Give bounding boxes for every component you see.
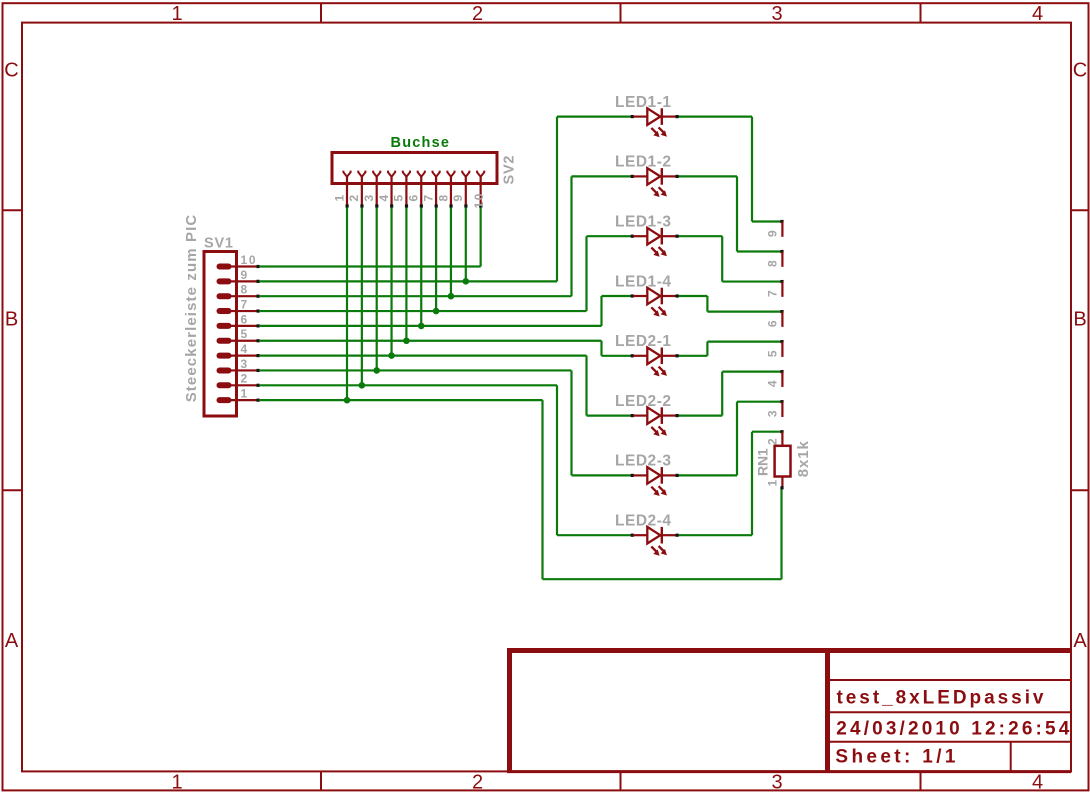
SV1 pin contact 1 <box>220 397 229 403</box>
LED LED2-4 cathode lead <box>662 534 677 536</box>
svg-text:C: C <box>4 60 18 82</box>
RN1 pin 8 stub <box>781 252 783 267</box>
wire LED2-1 left horizontal <box>602 355 632 357</box>
LED LED2-1 anode endpoint dot <box>631 354 634 357</box>
svg-text:3: 3 <box>771 3 782 25</box>
wire net column SV2 pin 7 down to row 7 <box>435 208 437 312</box>
wire LED1-4 vertical to RN1 pin 6 <box>706 296 708 312</box>
LED LED1-3 emission arrow 1 <box>651 248 659 257</box>
SV1 pin endpoint dot 4 <box>257 354 260 357</box>
title block thick top edge <box>507 648 1072 653</box>
wire bottom rail horizontal <box>543 578 782 580</box>
SV2 pin contact fork 7 <box>433 171 440 177</box>
frame column tick bottom 3|4 <box>920 771 922 790</box>
wire RN1 pin 1 vertical <box>780 489 782 580</box>
SV2 pin contact fork 10 <box>477 171 484 177</box>
wire LED2-2 left vertical from row 4 <box>585 356 587 416</box>
SV2 pin endpoint dot 10 <box>479 204 482 207</box>
LED LED1-3 anode endpoint dot <box>631 235 634 238</box>
wire net row SV1 pin 5 <box>259 340 602 342</box>
SV1 pin lead 8 <box>231 295 258 297</box>
LED LED2-4 anode endpoint dot <box>631 534 634 537</box>
svg-text:B: B <box>5 309 18 331</box>
LED LED1-4 triangle <box>647 288 660 305</box>
SV2 pin contact fork 3 <box>373 171 380 177</box>
wire LED1-4 left horizontal <box>602 295 632 297</box>
svg-text:RN1: RN1 <box>755 448 771 476</box>
title block row line 1 <box>830 679 1071 681</box>
LED LED1-2 emission arrow 2 <box>659 187 667 196</box>
LED LED2-1 emission arrow 2 <box>659 367 667 376</box>
RN1 pin 6 stub <box>781 312 783 327</box>
wire row 1 vertical down <box>541 400 543 579</box>
RN1 pin 2 endpoint dot <box>780 430 783 433</box>
SV2 pin endpoint dot 9 <box>464 204 467 207</box>
svg-text:4: 4 <box>241 342 248 356</box>
svg-text:6: 6 <box>766 320 780 327</box>
SV2 pin lead 4 <box>390 177 392 205</box>
SV2 pin contact fork 9 <box>462 171 469 177</box>
svg-text:7: 7 <box>766 290 780 297</box>
RN1 pin 5 endpoint dot <box>780 340 783 343</box>
RN1 pin 9 endpoint dot <box>780 220 783 223</box>
svg-text:24/03/2010 12:26:54: 24/03/2010 12:26:54 <box>836 719 1069 740</box>
wire net row SV1 pin 8 <box>259 295 572 297</box>
title block row line 3 <box>830 741 1071 743</box>
svg-text:10: 10 <box>472 193 486 208</box>
LED LED1-4 emission arrow 1 <box>651 307 659 316</box>
frame row tick left C|B <box>4 209 23 211</box>
SV2 pin endpoint dot 4 <box>390 204 393 207</box>
junction node row 4 / column 4 <box>388 352 395 359</box>
SV1 pin lead 9 <box>231 280 258 282</box>
wire RN1 pin 2 horizontal <box>752 431 781 433</box>
wire LED1-3 vertical to RN1 pin 7 <box>721 236 723 281</box>
SV2 pin lead 2 <box>361 177 363 205</box>
SV2 pin endpoint dot 6 <box>420 204 423 207</box>
SV1 pin endpoint dot 6 <box>257 324 260 327</box>
svg-text:1: 1 <box>241 387 248 401</box>
svg-text:6: 6 <box>241 312 248 326</box>
LED LED1-4 cathode lead <box>662 295 677 297</box>
wire net column SV2 pin 6 down to row 6 <box>420 208 422 326</box>
wire LED1-3 left horizontal <box>587 235 632 237</box>
LED LED1-2 anode endpoint dot <box>631 175 634 178</box>
LED LED2-3 emission arrow 1 <box>651 487 659 496</box>
svg-text:9: 9 <box>241 268 248 282</box>
wire LED1-1 vertical to RN1 pin 9 <box>751 117 753 222</box>
svg-text:9: 9 <box>451 195 465 202</box>
LED LED1-1 cathode bar <box>661 108 663 125</box>
title block sheet cell divider <box>1010 742 1012 772</box>
LED LED1-1 emission arrow 2 <box>659 127 667 136</box>
SV2 pin lead 6 <box>420 177 422 205</box>
frame column tick top 2|3 <box>620 3 622 22</box>
SV2 pin contact fork 5 <box>403 171 410 177</box>
svg-text:8: 8 <box>436 195 450 202</box>
LED LED2-1 emission arrow 1 <box>651 367 659 376</box>
svg-text:B: B <box>1073 309 1086 331</box>
svg-text:1: 1 <box>332 195 346 202</box>
wire net row SV1 pin 1 <box>259 399 543 401</box>
RN1 pin 5 stub <box>781 342 783 357</box>
LED LED1-1 anode lead <box>633 115 647 117</box>
wire RN1 pin 5 horizontal <box>707 341 781 343</box>
SV1 pin endpoint dot 8 <box>257 295 260 298</box>
SV1 pin contact 3 <box>220 367 229 373</box>
LED LED1-4 cathode endpoint dot <box>676 294 679 297</box>
svg-text:SV1: SV1 <box>204 236 233 252</box>
SV2 pin contact fork 8 <box>447 171 454 177</box>
SV2 pin lead 9 <box>465 177 467 205</box>
svg-text:5: 5 <box>766 350 780 357</box>
svg-text:A: A <box>5 630 19 652</box>
SV2 pin contact fork 6 <box>418 171 425 177</box>
resistor RN1 body <box>775 446 791 477</box>
LED LED2-1 cathode endpoint dot <box>676 354 679 357</box>
svg-text:test_8xLEDpassiv: test_8xLEDpassiv <box>837 688 1044 709</box>
SV2 pin contact fork 2 <box>358 171 365 177</box>
svg-text:8: 8 <box>766 260 780 267</box>
LED LED2-3 triangle <box>647 467 660 484</box>
SV1 pin endpoint dot 10 <box>257 265 260 268</box>
LED LED1-4 anode endpoint dot <box>631 294 634 297</box>
SV2 pin contact fork 1 <box>343 171 350 177</box>
wire LED2-4 left vertical from row 2 <box>556 385 558 535</box>
frame row tick right C|B <box>1071 209 1089 211</box>
LED LED2-4 emission arrow 1 <box>651 547 659 556</box>
SV1 pin endpoint dot 2 <box>257 384 260 387</box>
svg-text:5: 5 <box>241 327 248 341</box>
LED LED1-1 triangle <box>647 108 660 125</box>
LED LED2-2 anode lead <box>633 415 647 417</box>
wire LED1-1 right horizontal <box>678 115 752 117</box>
junction node row 7 / column 7 <box>433 308 440 315</box>
svg-text:9: 9 <box>766 230 780 237</box>
wire net row SV1 pin 6 <box>259 325 602 327</box>
junction node row 5 / column 5 <box>403 337 410 344</box>
wire LED1-1 left vertical from row 9 <box>556 117 558 282</box>
RN1 pin 4 stub <box>781 372 783 387</box>
svg-text:4: 4 <box>766 380 780 387</box>
wire LED2-1 vertical to RN1 pin 5 <box>706 342 708 356</box>
SV2 pin endpoint dot 1 <box>346 204 349 207</box>
RN1 pin 3 endpoint dot <box>780 400 783 403</box>
wire LED2-1 right horizontal <box>678 355 707 357</box>
svg-text:3: 3 <box>771 771 782 793</box>
svg-text:2: 2 <box>472 771 483 793</box>
junction node row 6 / column 6 <box>418 323 425 330</box>
LED LED2-2 anode endpoint dot <box>631 414 634 417</box>
LED LED2-3 emission arrow 2 <box>659 486 667 495</box>
LED LED2-3 cathode lead <box>662 474 677 476</box>
wire RN1 pin 8 horizontal <box>737 250 781 252</box>
title block row line 2 <box>830 711 1071 713</box>
SV2 pin lead 5 <box>405 177 407 205</box>
svg-text:4: 4 <box>1032 3 1043 25</box>
svg-text:6: 6 <box>407 195 421 202</box>
SV1 pin contact 7 <box>220 308 229 314</box>
frame column tick top 1|2 <box>320 3 322 22</box>
title block thick divider <box>825 648 830 772</box>
wire net column SV2 pin 2 down to row 2 <box>361 208 363 386</box>
wire net column SV2 pin 9 down to row 9 <box>465 208 467 282</box>
LED LED1-2 triangle <box>647 168 660 185</box>
wire LED2-4 right horizontal <box>678 534 752 536</box>
wire RN1 pin 9 horizontal <box>752 220 781 222</box>
LED LED2-4 triangle <box>647 527 660 544</box>
svg-text:1: 1 <box>766 480 780 487</box>
svg-text:3: 3 <box>241 357 248 371</box>
wire LED2-2 left horizontal <box>587 415 632 417</box>
LED LED1-3 cathode endpoint dot <box>676 235 679 238</box>
SV1 pin endpoint dot 7 <box>257 309 260 312</box>
LED LED2-1 cathode lead <box>662 355 677 357</box>
SV2 pin lead 8 <box>450 177 452 205</box>
wire LED2-1 left vertical from row 5 <box>600 341 602 356</box>
SV1 pin contact 4 <box>220 353 229 359</box>
wire LED2-4 vertical to RN1 pin 2 <box>751 432 753 535</box>
wire net row SV1 pin 10 <box>259 265 481 267</box>
SV1 pin lead 7 <box>231 310 258 312</box>
SV1 pin lead 5 <box>231 340 258 342</box>
SV1 pin contact 9 <box>220 278 229 284</box>
SV1 pin contact 2 <box>220 382 229 388</box>
wire RN1 pin 4 horizontal <box>722 371 781 373</box>
wire net row SV1 pin 2 <box>259 384 557 386</box>
LED LED2-4 cathode endpoint dot <box>676 534 679 537</box>
svg-text:8x1k: 8x1k <box>795 441 812 478</box>
svg-text:7: 7 <box>241 297 248 311</box>
LED LED2-1 triangle <box>647 348 660 365</box>
frame column tick top 3|4 <box>920 3 922 22</box>
svg-text:10: 10 <box>241 253 256 267</box>
SV1 pin endpoint dot 5 <box>257 339 260 342</box>
wire LED1-3 right horizontal <box>678 235 722 237</box>
SV2 pin lead 3 <box>376 177 378 205</box>
SV2 pin lead 1 <box>346 177 348 205</box>
svg-text:8: 8 <box>241 283 248 297</box>
SV2 pin lead 10 <box>480 177 482 205</box>
LED LED1-1 cathode endpoint dot <box>676 115 679 118</box>
svg-text:3: 3 <box>362 195 376 202</box>
SV1 pin endpoint dot 1 <box>257 399 260 402</box>
SV1 pin contact 5 <box>220 338 229 344</box>
LED LED1-2 cathode endpoint dot <box>676 175 679 178</box>
RN1 pin 7 stub <box>781 282 783 297</box>
wire LED1-2 right horizontal <box>678 175 737 177</box>
connector SV2 body <box>332 153 497 184</box>
LED LED1-3 cathode bar <box>661 228 663 245</box>
junction node row 8 / column 8 <box>448 293 455 300</box>
LED LED1-2 emission arrow 1 <box>651 188 659 197</box>
LED LED1-2 anode lead <box>633 175 647 177</box>
wire LED2-3 left horizontal <box>572 474 632 476</box>
LED LED1-1 anode endpoint dot <box>631 115 634 118</box>
SV1 pin lead 6 <box>231 325 258 327</box>
LED LED2-3 anode lead <box>633 474 647 476</box>
junction node row 3 / column 3 <box>373 367 380 374</box>
wire net row SV1 pin 3 <box>259 369 572 371</box>
wire RN1 pin 6 horizontal <box>707 310 781 312</box>
LED LED1-4 emission arrow 2 <box>659 307 667 316</box>
LED LED2-3 cathode endpoint dot <box>676 474 679 477</box>
SV2 pin endpoint dot 7 <box>435 204 438 207</box>
LED LED2-2 cathode lead <box>662 415 677 417</box>
SV1 pin contact 6 <box>220 323 229 329</box>
SV2 pin lead 7 <box>435 177 437 205</box>
SV2 pin endpoint dot 5 <box>405 204 408 207</box>
wire LED1-2 left horizontal <box>572 175 632 177</box>
RN1 pin 8 endpoint dot <box>780 250 783 253</box>
wire LED1-2 vertical to RN1 pin 8 <box>736 176 738 251</box>
RN1 pin 3 stub <box>781 402 783 417</box>
wire LED2-4 left horizontal <box>557 534 631 536</box>
wire net column SV2 pin 3 down to row 3 <box>376 208 378 371</box>
LED LED2-1 cathode bar <box>661 348 663 365</box>
wire net column SV2 pin 1 down to row 1 <box>346 208 348 401</box>
svg-text:2: 2 <box>472 3 483 25</box>
junction node row 2 / column 2 <box>359 382 366 389</box>
svg-text:1: 1 <box>171 771 182 793</box>
svg-text:7: 7 <box>421 195 435 202</box>
SV2 pin contact fork 4 <box>388 171 395 177</box>
SV1 pin lead 1 <box>231 399 258 401</box>
svg-text:Steeckerleiste zum PIC: Steeckerleiste zum PIC <box>183 215 200 403</box>
LED LED2-2 cathode bar <box>661 407 663 424</box>
LED LED1-3 emission arrow 2 <box>659 247 667 256</box>
svg-text:Buchse: Buchse <box>391 135 450 151</box>
RN1 pin 2 stub <box>781 432 783 446</box>
RN1 pin 1 endpoint dot <box>780 486 783 489</box>
SV1 pin endpoint dot 3 <box>257 369 260 372</box>
junction node row 1 / column 1 <box>344 397 351 404</box>
wire net column SV2 pin 8 down to row 8 <box>450 208 452 297</box>
svg-text:A: A <box>1073 630 1087 652</box>
frame column tick bottom 1|2 <box>320 771 322 790</box>
svg-text:4: 4 <box>377 195 391 202</box>
wire LED1-1 left horizontal <box>557 115 631 117</box>
wire LED2-2 vertical to RN1 pin 4 <box>721 372 723 416</box>
wire LED2-2 right horizontal <box>678 415 722 417</box>
wire RN1 pin 3 horizontal <box>737 401 781 403</box>
SV1 pin contact 10 <box>220 264 229 270</box>
RN1 pin 4 endpoint dot <box>780 370 783 373</box>
RN1 pin 9 stub <box>781 222 783 237</box>
wire RN1 pin 7 horizontal <box>722 280 781 282</box>
LED LED1-4 anode lead <box>633 295 647 297</box>
SV1 pin lead 10 <box>231 265 258 267</box>
LED LED2-4 cathode bar <box>661 527 663 544</box>
svg-text:2: 2 <box>241 372 248 386</box>
LED LED2-3 anode endpoint dot <box>631 474 634 477</box>
frame column tick bottom 2|3 <box>620 771 622 790</box>
wire net row SV1 pin 4 <box>259 355 587 357</box>
svg-text:5: 5 <box>392 195 406 202</box>
title block bottom edge <box>507 770 1071 773</box>
LED LED2-2 emission arrow 1 <box>651 427 659 436</box>
SV1 pin lead 2 <box>231 384 258 386</box>
LED LED2-2 emission arrow 2 <box>659 426 667 435</box>
wire net row SV1 pin 7 <box>259 310 587 312</box>
LED LED1-3 cathode lead <box>662 235 677 237</box>
LED LED2-4 emission arrow 2 <box>659 546 667 555</box>
LED LED1-3 anode lead <box>633 235 647 237</box>
svg-text:C: C <box>1073 60 1087 82</box>
wire LED2-3 vertical to RN1 pin 3 <box>736 402 738 476</box>
SV1 pin contact 8 <box>220 293 229 299</box>
LED LED2-2 cathode endpoint dot <box>676 414 679 417</box>
RN1 pin 7 endpoint dot <box>780 280 783 283</box>
connector SV1 body <box>204 252 237 417</box>
SV1 pin lead 4 <box>231 355 258 357</box>
SV1 pin lead 3 <box>231 369 258 371</box>
wire net row SV1 pin 9 <box>259 280 557 282</box>
LED LED1-2 cathode bar <box>661 168 663 185</box>
svg-text:1: 1 <box>171 3 182 25</box>
svg-text:2: 2 <box>347 195 361 202</box>
svg-text:Sheet: 1/1: Sheet: 1/1 <box>835 747 955 768</box>
LED LED2-1 anode lead <box>633 355 647 357</box>
LED LED2-2 triangle <box>647 407 660 424</box>
frame row tick right B|A <box>1071 489 1089 491</box>
wire LED1-3 left vertical from row 7 <box>585 236 587 311</box>
wire LED1-4 left vertical from row 6 <box>600 296 602 326</box>
SV2 pin endpoint dot 2 <box>360 204 363 207</box>
LED LED2-4 anode lead <box>633 534 647 536</box>
LED LED1-2 cathode lead <box>662 175 677 177</box>
svg-text:2: 2 <box>766 438 780 445</box>
wire net column SV2 pin 10 down to row 10 <box>480 208 482 267</box>
frame row tick left B|A <box>4 489 23 491</box>
wire net column SV2 pin 5 down to row 5 <box>405 208 407 341</box>
title block thick left edge <box>507 648 512 772</box>
RN1 pin 6 endpoint dot <box>780 310 783 313</box>
LED LED1-3 triangle <box>647 228 660 245</box>
svg-text:4: 4 <box>1032 771 1043 793</box>
LED LED1-4 cathode bar <box>661 288 663 305</box>
junction node row 9 / column 9 <box>463 278 470 285</box>
wire LED2-3 right horizontal <box>678 474 737 476</box>
LED LED1-1 emission arrow 1 <box>651 128 659 137</box>
LED LED1-1 cathode lead <box>662 115 677 117</box>
wire LED2-3 left vertical from row 3 <box>570 370 572 475</box>
SV2 pin endpoint dot 8 <box>449 204 452 207</box>
LED LED2-3 cathode bar <box>661 467 663 484</box>
wire net column SV2 pin 4 down to row 4 <box>390 208 392 356</box>
RN1 pin 1 stub <box>781 477 783 488</box>
wire LED1-4 right horizontal <box>678 295 707 297</box>
wire LED1-2 left vertical from row 8 <box>570 176 572 296</box>
SV1 pin endpoint dot 9 <box>257 280 260 283</box>
svg-text:SV2: SV2 <box>502 156 518 185</box>
svg-text:3: 3 <box>766 410 780 417</box>
SV2 pin endpoint dot 3 <box>375 204 378 207</box>
